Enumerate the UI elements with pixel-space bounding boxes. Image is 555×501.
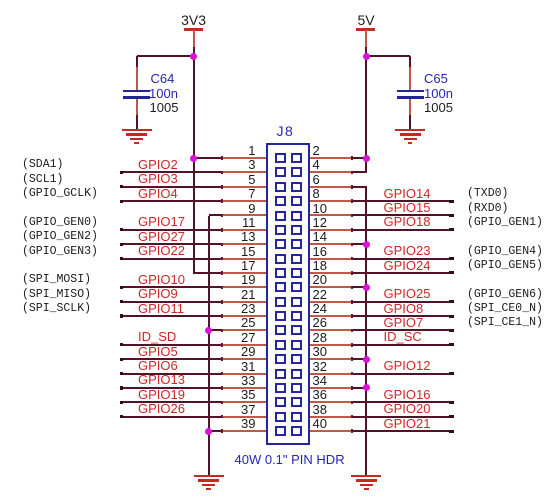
- ground symbol bottom left: [194, 475, 224, 477]
- net label GPIO16 (pin 36): [384, 388, 431, 401]
- node 3V3 junction at C64 branch: [190, 53, 197, 60]
- wire net of pin 22 (right): [350, 301, 454, 303]
- wire end cap pin 12: [449, 228, 454, 231]
- wire end cap pin 13: [120, 243, 123, 246]
- wire net of pin 8 (right): [350, 200, 454, 202]
- node 5V junction at pin2: [363, 155, 370, 162]
- wire end cap pin 3: [120, 171, 123, 174]
- power symbol 3V3 net label: [94, 13, 294, 27]
- net label GPIO8 (pin 24): [384, 302, 424, 315]
- pin 17 stub of J8: [222, 272, 268, 274]
- wire net of pin 11 (left): [120, 229, 224, 231]
- pin 34 stub of J8: [309, 387, 353, 389]
- wire end cap pin 28: [449, 343, 454, 346]
- function annotation (SPI_CE0_N): [467, 303, 543, 315]
- pin 39 stub of J8: [222, 430, 268, 432]
- wire net of pin 36 (right): [350, 401, 454, 403]
- wire net of pin 18 (right): [350, 272, 454, 274]
- net label GPIO7 (pin 26): [384, 316, 424, 329]
- pin junction tick 33: [221, 386, 223, 390]
- wire net of pin 7 (left): [120, 200, 224, 202]
- pin 3 stub of J8: [222, 171, 268, 173]
- wire pin 17 to 3V3 rail: [193, 272, 224, 274]
- wire end cap pin 22: [449, 300, 454, 303]
- pin junction tick 26: [351, 329, 353, 333]
- pin junction tick 6: [351, 185, 353, 189]
- power symbol 5V pin stub: [365, 30, 367, 47]
- wire right GND rail (pin6 down to ground): [365, 187, 367, 476]
- capacitor C65 refdes: [424, 72, 448, 85]
- pin junction tick 31: [221, 372, 223, 376]
- wire net of pin 33 (left): [120, 387, 224, 389]
- wire net of pin 27 (left): [120, 344, 224, 346]
- wire C65 to ground: [409, 115, 411, 130]
- node GND junction at pin25: [205, 327, 212, 334]
- pin junction tick 25: [221, 329, 223, 333]
- capacitor C65 package 1005: [424, 101, 453, 114]
- wire net of pin 23 (left): [120, 315, 224, 317]
- wire net of pin 40 (right): [350, 430, 454, 432]
- function annotation (SPI_MISO): [22, 289, 91, 301]
- pin junction tick 32: [351, 372, 353, 376]
- pin junction tick 5: [221, 185, 223, 189]
- pin 6 stub of J8: [309, 186, 353, 188]
- wire end cap pin 37: [120, 415, 123, 418]
- pin junction tick 30: [351, 357, 353, 361]
- wire end cap pin 7: [120, 200, 123, 203]
- net label GPIO15 (pin 10): [384, 201, 431, 214]
- wire end cap pin 35: [120, 401, 123, 404]
- node 3V3 junction at pin1: [190, 155, 197, 162]
- capacitor C64 package 1005: [150, 101, 179, 114]
- node GND junction at pin30: [363, 356, 370, 363]
- wire net of pin 5 (left): [120, 186, 224, 188]
- net label GPIO22 (pin 15): [138, 244, 185, 257]
- wire end cap pin 27: [120, 343, 123, 346]
- wire net of pin 10 (right): [350, 214, 454, 216]
- pin 32 stub of J8: [309, 373, 353, 375]
- function annotation (GPIO_GEN6): [467, 289, 543, 301]
- pin 13 stub of J8: [222, 243, 268, 245]
- pin 5 stub of J8: [222, 186, 268, 188]
- pin junction tick 24: [351, 314, 353, 318]
- net label GPIO21 (pin 40): [384, 417, 431, 430]
- function annotation (RXD0): [467, 203, 508, 215]
- wire end cap pin 29: [120, 358, 123, 361]
- pin 23 stub of J8: [222, 315, 268, 317]
- pin 11 stub of J8: [222, 229, 268, 231]
- wire left GND rail (pin9 down to ground): [208, 216, 210, 476]
- wire C64 to ground: [136, 115, 138, 130]
- pin 2 stub of J8: [309, 157, 353, 159]
- wire C64 top connection: [136, 56, 138, 68]
- net label GPIO3 (pin 5): [138, 172, 178, 185]
- wire end cap pin 11: [120, 228, 123, 231]
- wire end cap pin 31: [120, 372, 123, 375]
- pin junction tick 37: [221, 415, 223, 419]
- wire net of pin 29 (left): [120, 358, 224, 360]
- wire end cap pin 21: [120, 300, 123, 303]
- wire end cap pin 40: [449, 430, 454, 433]
- pin 19 stub of J8: [222, 286, 268, 288]
- net label GPIO11 (pin 23): [138, 302, 184, 315]
- connector J8 body outline: [266, 143, 311, 445]
- wire pin 25 to GND rail: [208, 329, 224, 331]
- function annotation (GPIO_GEN2): [22, 231, 98, 243]
- pin junction tick 1: [221, 156, 223, 160]
- wire 3V3 vertical rail (power to pin1 to pin17): [193, 47, 195, 273]
- net label GPIO13 (pin 33): [138, 373, 185, 386]
- capacitor C64 plates: [123, 90, 150, 93]
- pin 28 stub of J8: [309, 344, 353, 346]
- net label GPIO2 (pin 3): [138, 158, 178, 171]
- wire pin 39 to GND rail: [208, 430, 224, 432]
- wire 5V branch to C65: [366, 55, 410, 57]
- pin junction tick 16: [351, 257, 353, 261]
- net label GPIO23 (pin 16): [384, 244, 431, 257]
- function annotation (GPIO_GEN4): [467, 246, 543, 258]
- capacitor C65 plates: [397, 90, 424, 93]
- wire end cap pin 24: [449, 315, 454, 318]
- capacitor C65 top pin: [409, 67, 411, 90]
- pin junction tick 11: [221, 228, 223, 232]
- pin 4 stub of J8: [309, 171, 353, 173]
- function annotation (GPIO_GEN5): [467, 260, 543, 272]
- wire pin 6 to GND rail: [350, 186, 367, 188]
- wire net of pin 32 (right): [350, 373, 454, 375]
- pin junction tick 9: [221, 214, 223, 218]
- wire net of pin 28 (right): [350, 344, 454, 346]
- wire pin 9 to GND rail: [209, 214, 224, 216]
- pin 38 stub of J8: [309, 416, 353, 418]
- pin junction tick 40: [351, 429, 353, 433]
- net label GPIO14 (pin 8): [384, 187, 431, 200]
- ground symbol under C64: [122, 129, 152, 131]
- wire net of pin 3 (left): [120, 171, 224, 173]
- ground symbol under C65: [395, 129, 425, 131]
- pin junction tick 34: [351, 386, 353, 390]
- function annotation (GPIO_GCLK): [22, 188, 98, 200]
- pin 36 stub of J8: [309, 401, 353, 403]
- net label GPIO17 (pin 11): [138, 215, 185, 228]
- connector J8 description 40W 0.1" PIN HDR: [235, 453, 345, 466]
- node GND junction at pin14: [363, 241, 370, 248]
- power symbol 3V3 pin stub: [193, 30, 195, 47]
- pin 30 stub of J8: [309, 358, 353, 360]
- node GND junction at pin20: [363, 284, 370, 291]
- pin junction tick 7: [221, 199, 223, 203]
- connector J8 pin squares (40 positions): [275, 153, 286, 163]
- net label GPIO18 (pin 12): [384, 215, 431, 228]
- pin 25 stub of J8: [222, 329, 268, 331]
- pin junction tick 17: [221, 271, 223, 275]
- capacitor C64 value 100n: [149, 87, 178, 100]
- pin junction tick 4: [351, 171, 353, 175]
- pin junction tick 36: [351, 401, 353, 405]
- wire end cap pin 5: [120, 185, 123, 188]
- pin junction tick 28: [351, 343, 353, 347]
- wire pin 20 to GND rail: [350, 286, 367, 288]
- wire pin 30 to GND rail: [350, 358, 367, 360]
- net label GPIO24 (pin 18): [384, 259, 431, 272]
- function annotation (SCL1): [22, 174, 63, 186]
- pin junction tick 20: [351, 286, 353, 290]
- net label GPIO9 (pin 21): [138, 287, 178, 300]
- pin 10 stub of J8: [309, 214, 353, 216]
- wire net of pin 26 (right): [350, 329, 454, 331]
- function annotation (GPIO_GEN0): [22, 217, 98, 229]
- pin junction tick 15: [221, 257, 223, 261]
- wire end cap pin 33: [120, 386, 123, 389]
- wire end cap pin 10: [449, 214, 454, 217]
- power symbol 5V net label: [266, 13, 466, 27]
- pin junction tick 29: [221, 357, 223, 361]
- wire net of pin 13 (left): [120, 243, 224, 245]
- pin 37 stub of J8: [222, 416, 268, 418]
- wire pin 34 to GND rail: [350, 387, 367, 389]
- pin 31 stub of J8: [222, 373, 268, 375]
- ground symbol bottom right: [351, 475, 381, 477]
- pin 18 stub of J8: [309, 272, 353, 274]
- pin numbers 2-40 (right, even): [313, 144, 320, 157]
- wire net of pin 15 (left): [120, 258, 224, 260]
- capacitor C64 bottom pin: [136, 99, 138, 117]
- wire end cap pin 16: [449, 257, 454, 260]
- node 5V junction at C65 branch: [363, 53, 370, 60]
- wire end cap pin 23: [120, 314, 123, 317]
- net label GPIO4 (pin 7): [138, 187, 178, 200]
- wire end cap pin 32: [449, 372, 454, 375]
- pin numbers 1-39 (left, odd): [248, 144, 255, 157]
- pin junction tick 14: [351, 243, 353, 247]
- wire net of pin 16 (right): [350, 258, 454, 260]
- net label GPIO12 (pin 32): [384, 359, 431, 372]
- function annotation (SPI_SCLK): [22, 303, 91, 315]
- wire net of pin 37 (left): [120, 416, 224, 418]
- wire 5V vertical rail (power to pin2 to pin4): [365, 47, 367, 172]
- wire net of pin 24 (right): [350, 315, 454, 317]
- pin 33 stub of J8: [222, 387, 268, 389]
- net label GPIO25 (pin 22): [384, 287, 431, 300]
- capacitor C64 refdes: [151, 72, 175, 85]
- function annotation (GPIO_GEN3): [22, 246, 98, 258]
- wire 3V3 to pin 1: [194, 157, 224, 159]
- pin 24 stub of J8: [309, 315, 353, 317]
- wire end cap pin 19: [120, 286, 123, 289]
- wire end cap pin 15: [120, 257, 123, 260]
- function annotation (GPIO_GEN1): [467, 217, 543, 229]
- net label GPIO26 (pin 37): [138, 402, 185, 415]
- function annotation (TXD0): [467, 188, 508, 200]
- pin junction tick 18: [351, 271, 353, 275]
- pin junction tick 38: [351, 415, 353, 419]
- net label GPIO20 (pin 38): [384, 402, 431, 415]
- pin 27 stub of J8: [222, 344, 268, 346]
- function annotation (SPI_MOSI): [22, 274, 91, 286]
- pin junction tick 35: [221, 401, 223, 405]
- pin junction tick 39: [221, 429, 223, 433]
- wire C65 top connection: [409, 56, 411, 68]
- pin 8 stub of J8: [309, 200, 353, 202]
- wire end cap pin 38: [449, 415, 454, 418]
- power symbol 3V3 bar: [184, 28, 203, 31]
- pin junction tick 2: [351, 156, 353, 160]
- pin junction tick 21: [221, 300, 223, 304]
- pin 26 stub of J8: [309, 329, 353, 331]
- wire net of pin 12 (right): [350, 229, 454, 231]
- pin junction tick 22: [351, 300, 353, 304]
- pin junction tick 12: [351, 228, 353, 232]
- capacitor C65 value 100n: [424, 87, 453, 100]
- power symbol 5V bar: [356, 28, 375, 31]
- pin 15 stub of J8: [222, 258, 268, 260]
- pin 20 stub of J8: [309, 286, 353, 288]
- node GND junction at pin39: [205, 428, 212, 435]
- capacitor C65 bottom pin: [409, 99, 411, 117]
- wire net of pin 38 (right): [350, 416, 454, 418]
- pin 21 stub of J8: [222, 301, 268, 303]
- pin 22 stub of J8: [309, 301, 353, 303]
- net label GPIO19 (pin 35): [138, 388, 185, 401]
- net label ID_SC (pin 28): [384, 330, 422, 343]
- net label GPIO5 (pin 29): [138, 345, 178, 358]
- pin 7 stub of J8: [222, 200, 268, 202]
- function annotation (SPI_CE1_N): [467, 317, 543, 329]
- pin junction tick 8: [351, 199, 353, 203]
- pin junction tick 10: [351, 214, 353, 218]
- wire end cap pin 8: [449, 200, 454, 203]
- pin junction tick 23: [221, 314, 223, 318]
- wire pin 2 to 5V rail: [350, 157, 366, 159]
- wire net of pin 21 (left): [120, 301, 224, 303]
- wire end cap pin 18: [449, 271, 454, 274]
- net label ID_SD (pin 27): [138, 330, 176, 343]
- pin junction tick 19: [221, 286, 223, 290]
- pin 35 stub of J8: [222, 401, 268, 403]
- pin junction tick 3: [221, 171, 223, 175]
- pin 14 stub of J8: [309, 243, 353, 245]
- wire net of pin 31 (left): [120, 373, 224, 375]
- pin 16 stub of J8: [309, 258, 353, 260]
- net label GPIO10 (pin 19): [138, 273, 185, 286]
- pin junction tick 13: [221, 243, 223, 247]
- pin 12 stub of J8: [309, 229, 353, 231]
- wire pin 4 to 5V rail: [350, 171, 367, 173]
- pin 9 stub of J8: [222, 214, 268, 216]
- wire net of pin 35 (left): [120, 401, 224, 403]
- wire end cap pin 26: [449, 329, 454, 332]
- function annotation (SDA1): [22, 159, 63, 171]
- net label GPIO27 (pin 13): [138, 230, 185, 243]
- net label GPIO6 (pin 31): [138, 359, 178, 372]
- pin junction tick 27: [221, 343, 223, 347]
- pin 29 stub of J8: [222, 358, 268, 360]
- node GND junction at pin34: [363, 384, 370, 391]
- pin 1 stub of J8: [222, 157, 268, 159]
- pin 40 stub of J8: [309, 430, 353, 432]
- connector J8 refdes: [277, 124, 295, 138]
- wire end cap pin 36: [449, 401, 454, 404]
- wire pin 14 to GND rail: [350, 243, 367, 245]
- wire 3V3 branch to C64: [137, 55, 194, 57]
- wire net of pin 19 (left): [120, 286, 224, 288]
- capacitor C64 top pin: [136, 67, 138, 90]
